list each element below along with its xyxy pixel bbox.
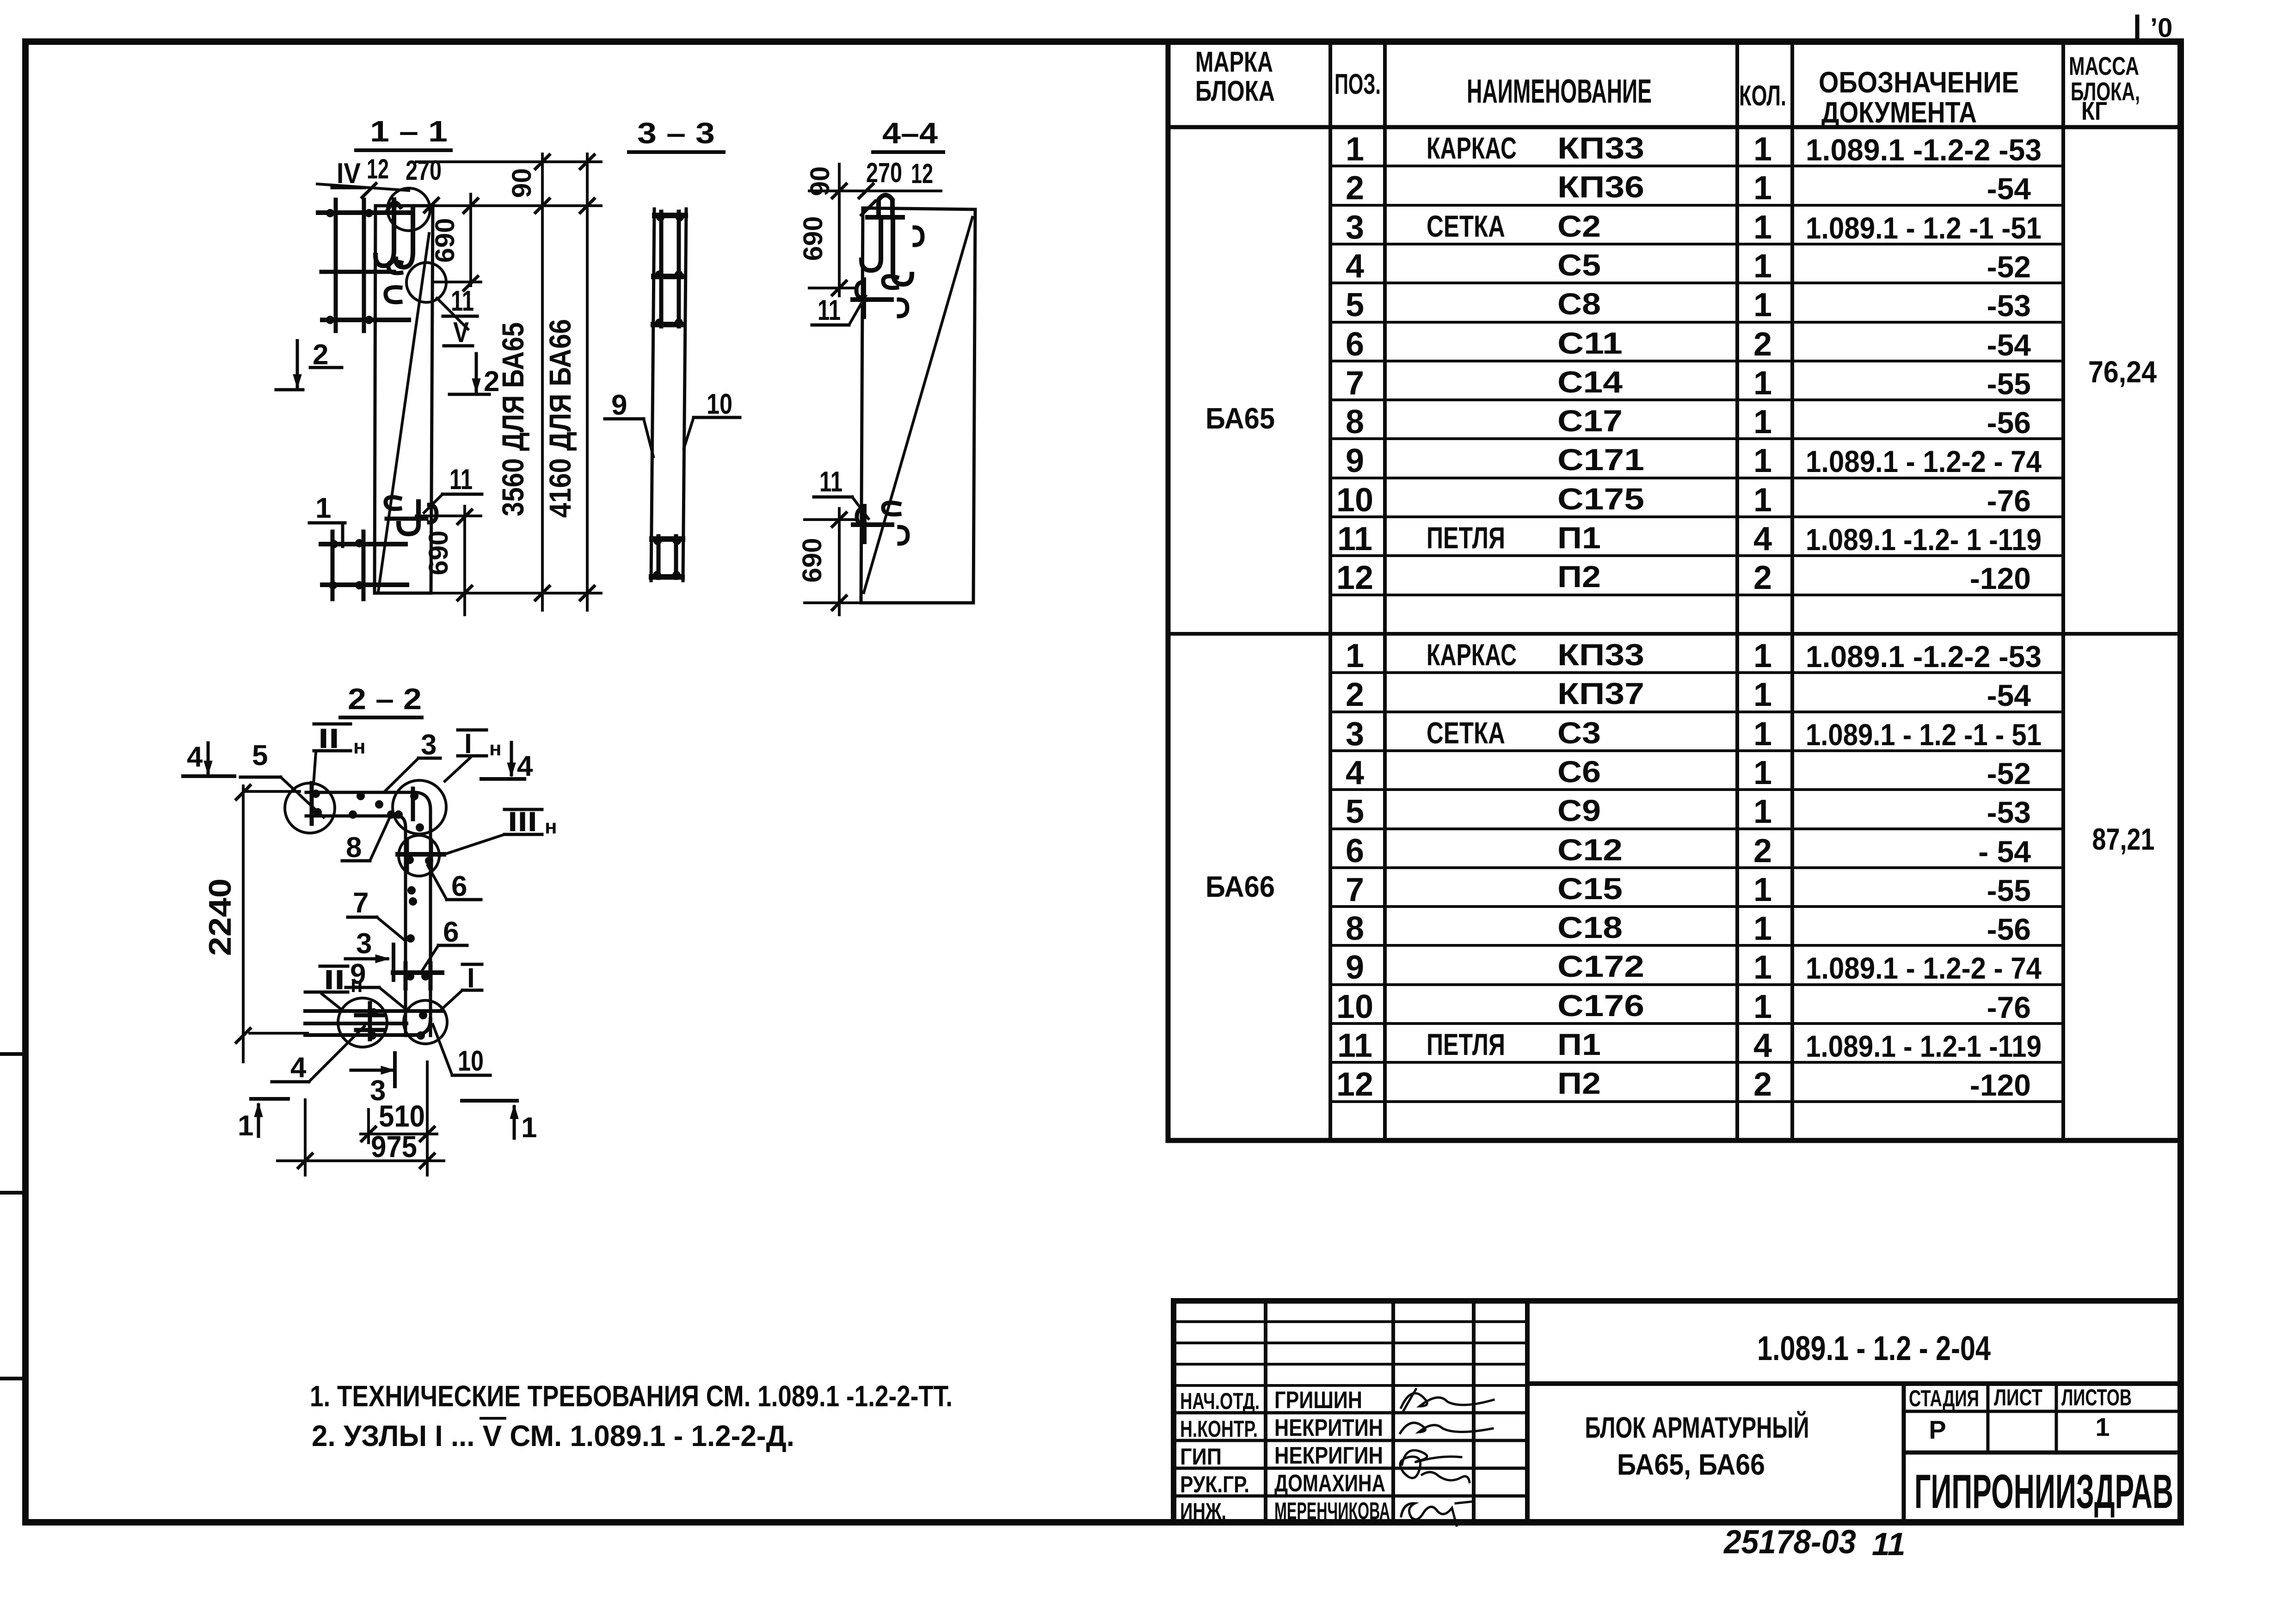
- svg-text:С175: С175: [1557, 482, 1644, 516]
- section 1-1 top c-hooks: [388, 262, 401, 273]
- svg-text:1.089.1 - 1.2-2 - 74: 1.089.1 - 1.2-2 - 74: [1806, 951, 2042, 985]
- signature squiggle 4: [1400, 1457, 1470, 1482]
- svg-text:’0: ’0: [2150, 13, 2172, 43]
- svg-text:9: 9: [1346, 442, 1364, 479]
- svg-text:5: 5: [1346, 287, 1364, 324]
- svg-text:6: 6: [1346, 326, 1364, 363]
- svg-text:-55: -55: [1987, 873, 2031, 907]
- svg-text:-52: -52: [1987, 250, 2031, 284]
- svg-text:11: 11: [819, 466, 843, 498]
- section 4-4 bottom hook anchor: [853, 522, 892, 527]
- svg-text:2: 2: [1753, 833, 1772, 870]
- svg-text:690: 690: [424, 531, 454, 576]
- svg-text:1: 1: [1753, 910, 1772, 947]
- svg-text:8: 8: [1346, 910, 1364, 947]
- section 1-1 node circle IV: [387, 188, 430, 231]
- svg-text:НЕКРИГИН: НЕКРИГИН: [1274, 1442, 1383, 1469]
- svg-text:1.089.1 - 1.2 -1 -51: 1.089.1 - 1.2 -1 -51: [1806, 211, 2042, 245]
- svg-text:2 – 2: 2 – 2: [348, 682, 422, 716]
- section 2-2 top member outline: [306, 792, 431, 1036]
- svg-text:КП33: КП33: [1557, 637, 1644, 672]
- title block vertical dividers left part: [1264, 1301, 1267, 1522]
- section 2-2 rebar dots top member: [357, 792, 365, 800]
- section 1-1 bottom extension line: [431, 592, 601, 594]
- svg-text:25178-03: 25178-03: [1723, 1524, 1856, 1561]
- svg-text:4: 4: [1753, 521, 1772, 558]
- section 2-2 top mesh bar in node II: [310, 783, 314, 824]
- section 4-4 mid hook anchor 11: [853, 297, 892, 302]
- svg-text:4: 4: [187, 741, 203, 773]
- svg-text:БА65, БА66: БА65, БА66: [1617, 1448, 1765, 1481]
- svg-text:-56: -56: [1987, 912, 2031, 946]
- svg-text:12: 12: [911, 158, 933, 189]
- section 4-4 dim 690 top: [838, 164, 841, 296]
- svg-text:4–4: 4–4: [882, 116, 938, 150]
- svg-text:90: 90: [507, 168, 537, 198]
- section 1-1 node circle V: [406, 263, 446, 302]
- section 2-2 dim 2240: [242, 786, 245, 1062]
- svg-text:С2: С2: [1557, 209, 1601, 243]
- section 1-1 top mesh bars: [318, 210, 410, 215]
- section 1-1 dim 690 top: [469, 194, 472, 286]
- svg-text:10: 10: [458, 1045, 484, 1077]
- svg-text:П2: П2: [1557, 559, 1601, 594]
- svg-text:1: 1: [315, 492, 331, 524]
- svg-text:510: 510: [379, 1099, 425, 1133]
- svg-text:НАИМЕНОВАНИЕ: НАИМЕНОВАНИЕ: [1467, 73, 1652, 110]
- svg-text:1. ТЕХНИЧЕСКИЕ ТРЕБОВАНИЯ СМ.: 1. ТЕХНИЧЕСКИЕ ТРЕБОВАНИЯ СМ. 1.089.1 -1…: [310, 1379, 953, 1413]
- section 2-2 mid splice joint node I: [393, 970, 442, 975]
- svg-text:2. УЗЛЫ I ... V СМ. 1.089.1 -: 2. УЗЛЫ I ... V СМ. 1.089.1 - 1.2-2-Д.: [312, 1419, 794, 1452]
- svg-text:9: 9: [1346, 949, 1364, 986]
- section 1-1 long dim line 4160: [586, 154, 589, 610]
- svg-text:НАЧ.ОТД.: НАЧ.ОТД.: [1180, 1388, 1260, 1414]
- section 2-2 bottom joint hooks: [368, 1003, 372, 1039]
- svg-text:ЛИСТОВ: ЛИСТОВ: [2061, 1385, 2132, 1410]
- svg-text:-54: -54: [1987, 678, 2031, 712]
- svg-text:11: 11: [1337, 521, 1372, 558]
- section 1-1 column member outline: [375, 204, 433, 208]
- svg-text:СЕТКА: СЕТКА: [1427, 716, 1505, 750]
- signature squiggle 5: [1401, 1503, 1457, 1526]
- svg-text:90: 90: [805, 166, 835, 196]
- svg-text:-76: -76: [1987, 484, 2031, 518]
- svg-text:БА66: БА66: [1205, 870, 1275, 903]
- section 3-3 top stirrup box: [659, 212, 664, 326]
- svg-text:8: 8: [1346, 404, 1364, 441]
- section 2-2 node circle 4 bottom left: [338, 998, 387, 1047]
- section 4-4 top hook loop: [879, 195, 892, 217]
- svg-text:ЛИСТ: ЛИСТ: [1994, 1385, 2042, 1410]
- svg-text:ИНЖ.: ИНЖ.: [1180, 1498, 1226, 1524]
- svg-text:н: н: [489, 737, 502, 760]
- svg-text:1.089.1 - 1.2 - 2-04: 1.089.1 - 1.2 - 2-04: [1757, 1329, 1991, 1367]
- left margin tick 3: [0, 1377, 25, 1380]
- section 3-3 member outline: [651, 209, 654, 581]
- title block signature row lines: [1174, 1411, 1527, 1415]
- svg-text:С171: С171: [1557, 442, 1644, 477]
- title block thin top rows: [1174, 1320, 1527, 1323]
- svg-text:3: 3: [1346, 209, 1364, 246]
- svg-text:С9: С9: [1557, 793, 1601, 827]
- svg-text:1.089.1 - 1.2 -1 - 51: 1.089.1 - 1.2 -1 - 51: [1806, 717, 2042, 752]
- svg-text:1: 1: [1346, 637, 1364, 674]
- svg-text:С3: С3: [1557, 716, 1601, 750]
- svg-text:ОБОЗНАЧЕНИЕ: ОБОЗНАЧЕНИЕ: [1819, 66, 2019, 99]
- svg-text:1.089.1 -1.2-2 -53: 1.089.1 -1.2-2 -53: [1806, 133, 2042, 167]
- svg-text:7: 7: [1346, 871, 1364, 908]
- svg-text:П2: П2: [1557, 1066, 1601, 1100]
- svg-text:10: 10: [1336, 482, 1373, 519]
- svg-text:1.089.1 - 1.2-1 -119: 1.089.1 - 1.2-1 -119: [1806, 1029, 2042, 1063]
- svg-text:1: 1: [1753, 793, 1772, 830]
- svg-text:1.089.1 -1.2-2 -53: 1.089.1 -1.2-2 -53: [1806, 639, 2042, 674]
- section 2-2 corner bars node I-n: [411, 789, 415, 819]
- svg-text:СТАДИЯ: СТАДИЯ: [1909, 1385, 1979, 1411]
- section 2-2 bottom member bars: [305, 1009, 442, 1013]
- svg-text:1: 1: [1753, 248, 1772, 285]
- svg-text:11: 11: [1337, 1027, 1372, 1064]
- section 1-1 long dim line 3560: [541, 154, 544, 610]
- svg-text:1: 1: [238, 1110, 253, 1142]
- svg-text:4: 4: [1346, 754, 1364, 791]
- svg-text:- 54: - 54: [1978, 834, 2031, 869]
- svg-text:П1: П1: [1557, 1027, 1601, 1061]
- svg-text:МАРКА: МАРКА: [1195, 46, 1273, 78]
- svg-text:1 – 1: 1 – 1: [370, 115, 448, 148]
- section 1-1 top hook loop 12: [375, 200, 394, 266]
- section 2-2 vertical member dots: [407, 886, 416, 895]
- svg-text:975: 975: [371, 1129, 417, 1164]
- svg-text:8: 8: [346, 832, 362, 864]
- svg-text:Р: Р: [1929, 1415, 1946, 1444]
- svg-text:С17: С17: [1557, 404, 1623, 438]
- svg-text:КП37: КП37: [1557, 676, 1644, 711]
- svg-text:1: 1: [1753, 482, 1772, 519]
- svg-text:7: 7: [1346, 365, 1364, 402]
- svg-text:1: 1: [1753, 754, 1772, 791]
- svg-text:11: 11: [451, 285, 474, 317]
- svg-text:КОЛ.: КОЛ.: [1739, 80, 1786, 112]
- svg-text:2240: 2240: [203, 878, 238, 956]
- svg-text:6: 6: [451, 870, 467, 902]
- svg-text:3: 3: [356, 928, 372, 960]
- svg-text:н: н: [353, 735, 366, 758]
- svg-text:-53: -53: [1987, 288, 2031, 323]
- svg-text:1: 1: [1753, 404, 1772, 441]
- svg-text:2: 2: [1753, 559, 1772, 596]
- svg-text:1: 1: [1753, 637, 1772, 674]
- section 4-4 dim 690 bottom: [838, 509, 841, 615]
- title block outline: [1174, 1301, 2181, 1522]
- svg-text:ПЕТЛЯ: ПЕТЛЯ: [1427, 521, 1505, 555]
- section 2-2 node circle III-n: [399, 835, 439, 876]
- section 1-1 extension line at member top: [433, 204, 601, 207]
- signature squiggle 3: [1402, 1450, 1461, 1465]
- svg-text:6: 6: [1346, 833, 1364, 870]
- svg-text:ДОМАХИНА: ДОМАХИНА: [1274, 1470, 1385, 1497]
- section 4-4 break diagonal: [864, 217, 972, 593]
- svg-text:1: 1: [2095, 1412, 2109, 1441]
- svg-text:Н.КОНТР.: Н.КОНТР.: [1180, 1416, 1258, 1442]
- svg-text:1: 1: [1753, 209, 1772, 246]
- svg-text:1: 1: [1753, 871, 1772, 908]
- svg-text:-55: -55: [1987, 367, 2031, 401]
- svg-text:6: 6: [443, 916, 459, 948]
- svg-text:С11: С11: [1557, 326, 1623, 360]
- svg-text:10: 10: [707, 388, 732, 420]
- svg-text:ГРИШИН: ГРИШИН: [1274, 1387, 1362, 1414]
- svg-text:С172: С172: [1557, 949, 1644, 983]
- svg-text:1: 1: [1753, 170, 1772, 207]
- svg-text:4160 ДЛЯ БА66: 4160 ДЛЯ БА66: [543, 319, 577, 518]
- svg-text:1: 1: [521, 1112, 537, 1144]
- svg-text:НЕКРИТИН: НЕКРИТИН: [1274, 1415, 1383, 1441]
- svg-text:БЛОКА: БЛОКА: [1195, 75, 1275, 107]
- signature squiggle 1: [1401, 1393, 1494, 1408]
- svg-text:-120: -120: [1970, 561, 2031, 595]
- svg-text:-56: -56: [1987, 405, 2031, 440]
- svg-text:1: 1: [1753, 676, 1772, 713]
- svg-text:1: 1: [1753, 716, 1772, 753]
- svg-text:БЛОК АРМАТУРНЫЙ: БЛОК АРМАТУРНЫЙ: [1585, 1410, 1809, 1444]
- svg-text:ПЕТЛЯ: ПЕТЛЯ: [1427, 1027, 1505, 1061]
- svg-text:С5: С5: [1557, 248, 1601, 282]
- svg-text:11: 11: [818, 294, 841, 326]
- svg-text:МАССА: МАССА: [2069, 51, 2139, 80]
- svg-text:ГИП: ГИП: [1180, 1444, 1222, 1470]
- svg-text:690: 690: [797, 538, 827, 583]
- svg-text:12: 12: [1336, 1066, 1373, 1103]
- svg-text:ГИПРОНИИЗДРАВ: ГИПРОНИИЗДРАВ: [1914, 1465, 2173, 1519]
- svg-text:3: 3: [1346, 716, 1364, 753]
- svg-text:3: 3: [421, 729, 437, 761]
- specification table grid: [1166, 42, 1171, 1140]
- svg-text:1.089.1 -1.2- 1 -119: 1.089.1 -1.2- 1 -119: [1806, 522, 2042, 557]
- svg-text:3560 ДЛЯ БА65: 3560 ДЛЯ БА65: [496, 322, 530, 516]
- section 2-2 node circle 10 bottom right: [404, 1000, 447, 1044]
- section 2-2 node circle I-n top right: [393, 780, 446, 834]
- svg-text:ДОКУМЕНТА: ДОКУМЕНТА: [1821, 96, 1977, 129]
- svg-text:-54: -54: [1987, 172, 2031, 206]
- svg-text:5: 5: [1346, 793, 1364, 830]
- svg-text:9: 9: [611, 389, 627, 421]
- svg-text:2: 2: [1753, 1066, 1772, 1103]
- section 3-3 bottom stirrup box: [657, 536, 661, 578]
- svg-text:10: 10: [1336, 988, 1373, 1025]
- section divider line between BA65 and BA66: [1168, 632, 2181, 636]
- svg-text:-76: -76: [1987, 990, 2031, 1024]
- svg-text:КП36: КП36: [1557, 170, 1644, 204]
- svg-text:КП33: КП33: [1557, 131, 1644, 165]
- svg-text:690: 690: [430, 218, 460, 263]
- svg-text:7: 7: [353, 887, 369, 919]
- section 1-1 dim 690 bottom: [463, 506, 466, 615]
- svg-text:1: 1: [1753, 442, 1772, 479]
- svg-text:1: 1: [1753, 287, 1772, 324]
- svg-text:ПОЗ.: ПОЗ.: [1335, 68, 1381, 100]
- section 4-4 member outline: [863, 208, 975, 209]
- left margin tick 2: [0, 1191, 25, 1195]
- svg-text:1: 1: [1346, 131, 1364, 168]
- svg-text:2: 2: [1346, 676, 1364, 713]
- svg-text:С14: С14: [1557, 365, 1623, 399]
- svg-text:КАРКАС: КАРКАС: [1427, 131, 1517, 165]
- left margin tick 1: [0, 1052, 25, 1056]
- svg-text:КГ: КГ: [2081, 96, 2107, 125]
- svg-text:4: 4: [1346, 248, 1364, 285]
- svg-text:11: 11: [1872, 1526, 1906, 1562]
- section 2-2 mid joint bars node III: [398, 852, 444, 857]
- section 1-1 break diagonal: [378, 233, 429, 592]
- svg-text:С18: С18: [1557, 910, 1623, 944]
- svg-text:2: 2: [1753, 326, 1772, 363]
- svg-text:РУК.ГР.: РУК.ГР.: [1180, 1471, 1249, 1497]
- svg-text:н: н: [351, 974, 363, 997]
- page number mark top right: [2135, 17, 2140, 41]
- svg-text:1: 1: [1753, 949, 1772, 986]
- title block stadiya column grid: [1902, 1384, 1906, 1522]
- svg-text:-120: -120: [1970, 1068, 2031, 1102]
- title block doc number cell line: [1527, 1381, 2181, 1386]
- svg-text:МЕРЕНЧИКОВА: МЕРЕНЧИКОВА: [1274, 1498, 1390, 1525]
- svg-text:12: 12: [1336, 559, 1373, 596]
- svg-text:КАРКАС: КАРКАС: [1427, 637, 1517, 672]
- svg-text:П1: П1: [1557, 521, 1601, 555]
- svg-text:12: 12: [367, 153, 389, 184]
- svg-text:1: 1: [1753, 365, 1772, 402]
- svg-text:11: 11: [449, 464, 473, 496]
- svg-text:-53: -53: [1987, 795, 2031, 829]
- svg-text:5: 5: [252, 740, 268, 772]
- svg-text:С6: С6: [1557, 754, 1601, 789]
- svg-text:С15: С15: [1557, 871, 1623, 906]
- svg-text:1.089.1 - 1.2-2 - 74: 1.089.1 - 1.2-2 - 74: [1806, 444, 2042, 478]
- svg-text:1: 1: [1753, 988, 1772, 1025]
- svg-text:н: н: [545, 815, 557, 838]
- svg-text:3 – 3: 3 – 3: [637, 116, 715, 150]
- section 1-1 dim line 90 right: [416, 160, 601, 163]
- svg-text:270: 270: [406, 155, 442, 186]
- svg-text:4: 4: [1753, 1027, 1772, 1064]
- section 1-1 bottom mesh bars: [321, 542, 406, 546]
- svg-text:4: 4: [290, 1052, 307, 1084]
- svg-text:76,24: 76,24: [2088, 355, 2157, 389]
- svg-text:690: 690: [798, 216, 828, 261]
- svg-text:БА65: БА65: [1205, 402, 1275, 435]
- svg-text:87,21: 87,21: [2092, 822, 2155, 856]
- svg-text:С12: С12: [1557, 833, 1623, 867]
- section 2-2 node circle II-n top: [285, 783, 335, 833]
- svg-text:С8: С8: [1557, 287, 1601, 321]
- section 1-1 bottom hooks: [386, 497, 400, 509]
- svg-text:-52: -52: [1987, 756, 2031, 791]
- svg-text:СЕТКА: СЕТКА: [1427, 209, 1505, 243]
- svg-text:1: 1: [1753, 131, 1772, 168]
- signature squiggle 2: [1400, 1423, 1493, 1433]
- svg-text:2: 2: [1346, 170, 1364, 207]
- svg-text:С176: С176: [1557, 988, 1644, 1023]
- svg-text:-54: -54: [1987, 328, 2031, 362]
